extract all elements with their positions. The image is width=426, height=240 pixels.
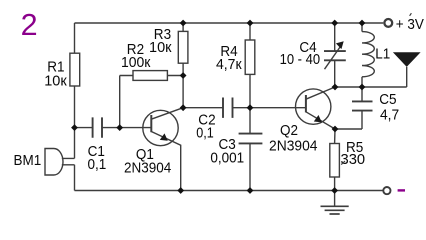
svg-text:L1: L1 xyxy=(375,45,390,62)
svg-text:0,1: 0,1 xyxy=(196,125,214,142)
svg-text:4,7к: 4,7к xyxy=(216,56,242,73)
svg-text:10к: 10к xyxy=(44,73,67,90)
svg-text:+ 3V: + 3V xyxy=(396,16,424,33)
svg-text:2N3904: 2N3904 xyxy=(124,159,171,176)
svg-text:330: 330 xyxy=(341,151,366,168)
svg-text:2N3904: 2N3904 xyxy=(269,137,318,154)
svg-text:10 - 40: 10 - 40 xyxy=(280,51,321,68)
svg-text:4,7: 4,7 xyxy=(380,107,399,124)
svg-text:BM1: BM1 xyxy=(14,152,42,169)
svg-text:100к: 100к xyxy=(121,54,151,71)
svg-text:10к: 10к xyxy=(149,39,172,56)
svg-text:2: 2 xyxy=(21,7,38,42)
svg-text:0,1: 0,1 xyxy=(88,156,107,173)
svg-text:0,001: 0,001 xyxy=(210,150,244,167)
